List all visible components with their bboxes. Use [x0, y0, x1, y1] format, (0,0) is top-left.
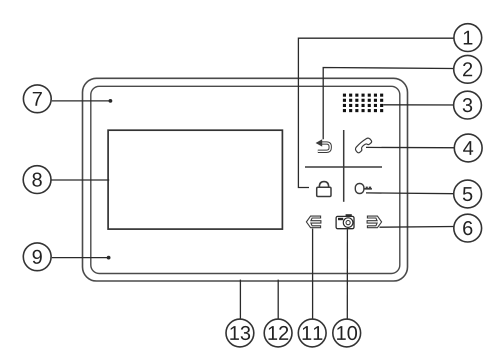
left arrow icon — [306, 216, 321, 228]
leader line callout 10 — [346, 229, 348, 319]
leader line callout 11 — [312, 229, 314, 320]
camera icon — [336, 214, 354, 229]
callout circle 9 — [23, 243, 51, 271]
leader line callout 9 — [52, 257, 109, 259]
callout circle 8 — [23, 166, 51, 194]
monitor inner face — [91, 86, 400, 273]
callout circle 13 — [226, 319, 254, 347]
callout circle 12 — [264, 319, 292, 347]
leader line callout 5 — [366, 192, 468, 195]
leader line callout 2 — [323, 68, 467, 140]
screen — [108, 130, 282, 229]
button divider horizontal — [305, 166, 382, 168]
phone icon — [354, 137, 372, 154]
callout circle 6 — [454, 214, 482, 242]
callout circle 1 — [454, 24, 482, 52]
speaker grille — [343, 94, 383, 113]
right arrow icon — [367, 216, 382, 228]
leader line callout 6 — [380, 225, 468, 228]
node dot callout 7 — [109, 99, 113, 103]
leader line callout 8 — [51, 179, 109, 181]
callout circle 10 — [333, 319, 361, 347]
key icon — [355, 184, 372, 194]
leader line callout 7 — [52, 100, 111, 102]
monitor outer body — [83, 78, 408, 281]
callout circle 11 — [298, 319, 326, 347]
button divider vertical — [343, 130, 345, 202]
leader line callout 13 — [239, 280, 241, 320]
node dot callout 9 — [107, 256, 111, 260]
callout circle 3 — [454, 91, 482, 119]
leader line callout 1 — [298, 38, 467, 187]
return icon — [316, 139, 331, 151]
callout circle 5 — [454, 180, 482, 208]
callout circle 7 — [23, 85, 51, 113]
callout circle 2 — [454, 55, 482, 83]
lock icon — [317, 182, 331, 197]
leader line callout 4 — [366, 146, 468, 148]
callout circle 4 — [454, 134, 482, 162]
leader line callout 12 — [277, 280, 279, 320]
leader line callout 3 — [383, 104, 467, 106]
